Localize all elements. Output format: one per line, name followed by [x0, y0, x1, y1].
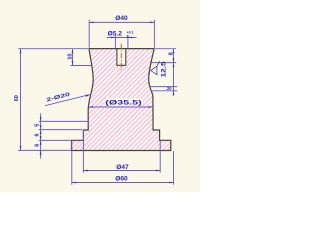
left chain ext lines	[39, 120, 89, 122]
O40 dim line	[89, 21, 154, 23]
O5.2 ext lines	[114, 36, 116, 49]
paper background	[0, 0, 200, 192]
10 dim arrows	[72, 49, 74, 53]
O5.2 dim line (outside arrows)	[107, 37, 137, 39]
chain arrows	[40, 117, 42, 121]
right ext @62.6	[151, 62, 176, 64]
O60 arrows	[72, 182, 76, 184]
O60 ext lines (down)	[71, 141, 73, 185]
O40 arrows	[89, 22, 93, 24]
svg-text:6: 6	[35, 134, 41, 137]
bottom face ext to left	[18, 149, 71, 151]
top face ext to right (8 dim)	[155, 48, 176, 50]
top face ext to left (60 dim)	[18, 48, 88, 50]
red centerline of hole	[120, 44, 122, 71]
leader arrow 2-O20	[85, 95, 90, 97]
O47 arrows	[83, 170, 87, 172]
svg-text:20: 20	[167, 86, 172, 91]
part outline	[89, 48, 154, 50]
hole slot (unhatched)	[116, 49, 126, 66]
svg-text:10: 10	[68, 53, 74, 59]
right dim line (8 / 20)	[173, 49, 175, 96]
O40: extension lines	[88, 20, 90, 48]
svg-text:(Ø35.5): (Ø35.5)	[105, 99, 142, 106]
svg-text:Ø47: Ø47	[116, 164, 129, 171]
section body (hatched cross-section of turned part)	[72, 49, 171, 151]
left chain dim line	[40, 114, 42, 159]
O60 dim line	[72, 182, 174, 184]
O47 dim line	[83, 170, 160, 172]
2-O20 leader	[45, 95, 90, 106]
svg-text:5: 5	[35, 124, 41, 127]
60 dim arrows	[20, 49, 22, 53]
right ext @90.8	[151, 90, 178, 92]
20 dim arrows (right)	[173, 63, 175, 67]
text mask over hatch	[105, 98, 144, 105]
(O35.5) dim line	[89, 106, 153, 108]
35.5 arrows	[89, 106, 93, 108]
roughness symbol 12.5	[151, 61, 160, 74]
8 dim arrows (right)	[173, 49, 175, 53]
hole-depth ext (10)	[71, 65, 92, 67]
10 dim line	[72, 49, 74, 66]
right ext @86.6	[150, 86, 177, 88]
svg-text:Ø60: Ø60	[115, 175, 128, 182]
svg-text:Ø40: Ø40	[115, 15, 128, 22]
svg-text:8: 8	[169, 52, 175, 55]
O47 ext lines (down)	[82, 131, 84, 173]
svg-text:6: 6	[35, 144, 41, 147]
hole outline	[117, 49, 126, 66]
svg-text:0: 0	[127, 35, 129, 39]
svg-text:Ø5.2: Ø5.2	[108, 31, 123, 38]
svg-text:60: 60	[14, 95, 20, 101]
svg-text:12.5: 12.5	[162, 61, 168, 78]
O5.2 outside arrows	[111, 37, 115, 39]
60 dim line	[20, 49, 22, 151]
arrows	[20, 22, 175, 184]
